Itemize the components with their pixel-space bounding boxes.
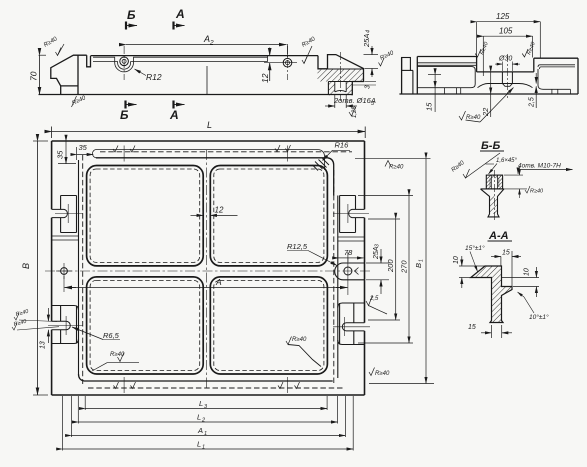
svg-text:1: 1: [204, 431, 207, 437]
svg-text:1: 1: [419, 259, 425, 262]
svg-text:L: L: [207, 120, 212, 130]
svg-text:R≥40: R≥40: [292, 337, 307, 343]
svg-text:3: 3: [375, 244, 381, 247]
svg-text:15: 15: [468, 324, 476, 331]
svg-text:R≥40: R≥40: [466, 115, 481, 121]
svg-text:R16: R16: [335, 141, 350, 150]
svg-text:Б: Б: [127, 8, 136, 22]
svg-text:12: 12: [260, 73, 270, 83]
svg-text:270: 270: [400, 260, 409, 274]
svg-text:R≥40: R≥40: [375, 371, 390, 377]
svg-text:10: 10: [453, 256, 460, 264]
svg-text:22: 22: [481, 107, 490, 117]
svg-text:15°±1°: 15°±1°: [465, 244, 485, 252]
svg-text:3: 3: [365, 85, 372, 89]
svg-text:A: A: [197, 426, 203, 435]
svg-text:R≥40: R≥40: [530, 189, 544, 195]
svg-text:А-А: А-А: [488, 230, 509, 242]
svg-text:R≥40: R≥40: [389, 165, 404, 171]
svg-text:R≥40: R≥40: [110, 352, 125, 358]
svg-text:13: 13: [40, 341, 47, 349]
svg-text:R12,5: R12,5: [287, 242, 308, 251]
svg-text:25A: 25A: [362, 34, 371, 48]
svg-text:105: 105: [499, 27, 513, 36]
svg-text:200: 200: [386, 259, 395, 273]
svg-text:4отв. М10-7Н: 4отв. М10-7Н: [518, 163, 561, 170]
svg-text:15: 15: [502, 250, 510, 257]
svg-text:2,5: 2,5: [529, 97, 536, 108]
svg-text:35: 35: [79, 143, 88, 152]
svg-text:35: 35: [56, 150, 65, 159]
svg-text:R12: R12: [146, 72, 162, 82]
svg-text:125: 125: [496, 12, 510, 21]
svg-text:А: А: [175, 7, 185, 21]
svg-text:Ø30: Ø30: [498, 56, 512, 63]
svg-text:Б-Б: Б-Б: [481, 140, 500, 152]
svg-text:4: 4: [366, 30, 372, 33]
svg-text:2: 2: [201, 418, 205, 424]
svg-text:B: B: [414, 263, 423, 268]
svg-text:L: L: [199, 399, 203, 408]
svg-text:25A: 25A: [373, 246, 380, 260]
svg-text:70: 70: [29, 71, 39, 81]
svg-text:2: 2: [209, 40, 214, 47]
svg-text:R6,5: R6,5: [103, 331, 120, 340]
svg-text:L: L: [197, 440, 201, 449]
svg-text:10°±1°: 10°±1°: [529, 313, 549, 321]
svg-text:2отв. Ø16A: 2отв. Ø16A: [333, 96, 376, 105]
svg-text:10: 10: [524, 268, 531, 276]
svg-text:1: 1: [202, 445, 205, 451]
svg-text:78: 78: [344, 248, 353, 257]
svg-text:A: A: [215, 277, 222, 287]
svg-text:B: B: [21, 263, 31, 269]
svg-text:A: A: [203, 34, 210, 44]
svg-text:12: 12: [215, 206, 224, 215]
svg-text:1,6×45°: 1,6×45°: [496, 158, 518, 164]
svg-text:15: 15: [425, 102, 434, 111]
svg-text:1,25: 1,25: [352, 106, 358, 118]
svg-text:Б: Б: [120, 108, 129, 122]
svg-text:L: L: [197, 413, 201, 422]
svg-text:А: А: [169, 108, 179, 122]
svg-text:2,5: 2,5: [369, 296, 379, 302]
